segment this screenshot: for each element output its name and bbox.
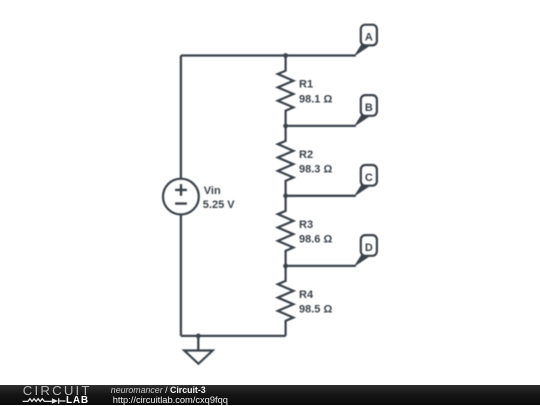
svg-text:A: A (365, 32, 373, 44)
url line (113, 395, 228, 405)
svg-text:R3: R3 (299, 219, 313, 231)
title line: neuromancer / Circuit-3 (111, 385, 206, 395)
resistor R1 (278, 56, 294, 126)
svg-text:R2: R2 (299, 149, 313, 161)
wire ground stub (197, 336, 199, 351)
svg-text:R4: R4 (299, 289, 314, 301)
net flag B (354, 95, 377, 127)
svg-text:98.5 Ω: 98.5 Ω (299, 304, 332, 316)
wire bottom rail (181, 335, 286, 337)
svg-text:B: B (365, 102, 373, 114)
wire node C stub (286, 195, 356, 197)
wire left rail top segment (180, 56, 182, 179)
svg-text:D: D (365, 242, 373, 254)
logo LAB (66, 395, 89, 406)
svg-text:R1: R1 (299, 79, 313, 91)
junction node C (283, 193, 288, 198)
junction node B (283, 124, 288, 129)
voltage source V1 Vin (163, 179, 199, 215)
resistor R4 (278, 266, 294, 336)
net flag C (354, 165, 377, 197)
resistor R2 (278, 126, 294, 196)
svg-text:C: C (365, 172, 373, 184)
junction node A (283, 53, 288, 58)
wire left rail bottom segment (180, 214, 182, 336)
resistor R3 (278, 196, 294, 266)
junction ground node (196, 334, 201, 339)
net flag D (354, 235, 377, 267)
net flag A (354, 25, 377, 57)
svg-text:98.6 Ω: 98.6 Ω (299, 233, 332, 245)
wire node D stub (286, 265, 356, 267)
wire top rail (node A) (181, 54, 356, 56)
junction node D (283, 264, 288, 269)
svg-text:Vin: Vin (204, 185, 221, 197)
svg-text:98.1 Ω: 98.1 Ω (299, 93, 332, 105)
ground (184, 351, 213, 364)
wire node B stub (286, 125, 356, 127)
logo zigzag + diode (22, 396, 68, 405)
svg-text:5.25 V: 5.25 V (203, 199, 235, 211)
svg-text:98.3 Ω: 98.3 Ω (299, 163, 332, 175)
logo CIRCUIT (23, 383, 92, 398)
footer bar (0, 385, 540, 405)
